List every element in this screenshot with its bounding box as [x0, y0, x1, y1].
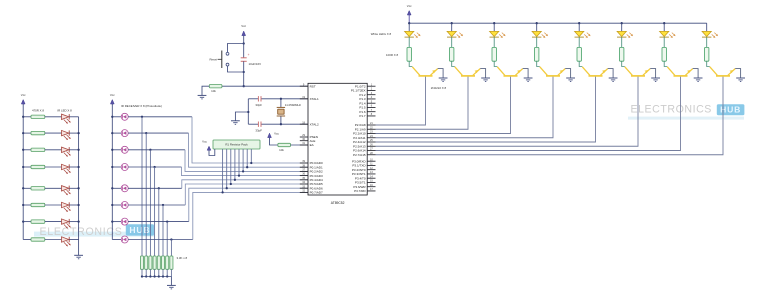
wire rail to photodiode 4: [112, 166, 121, 168]
wire resistor to transistor 4: [537, 61, 540, 66]
wire pulldown drop 2: [145, 133, 147, 256]
resistor 100R #8: [705, 47, 709, 61]
ground (transistor 6): [651, 77, 660, 79]
resistor 10k (EA): [278, 143, 291, 146]
svg-text:R1 Resistor Pack: R1 Resistor Pack: [225, 143, 248, 147]
resistor 470R #8: [31, 238, 45, 241]
node IR row 5 rail junction: [22, 187, 24, 189]
node XTAL1 crystal junction: [280, 98, 282, 100]
watermark HUB badge right: [717, 104, 745, 115]
ground (transistor 2): [481, 77, 490, 79]
wire photodiode 7 output: [128, 221, 189, 223]
wire LED supply rail: [409, 22, 707, 24]
resistor 100R #5: [577, 47, 581, 61]
node photodiode rail junction row 4: [111, 166, 113, 168]
node rail junction LED 4: [536, 22, 538, 24]
node rail junction LED 7: [663, 22, 665, 24]
wire resistor 5 to common: [158, 269, 160, 276]
node XTAL2 crystal junction: [280, 123, 282, 125]
wire LED to right rail row 4: [69, 166, 78, 168]
resistor 3.3K #8: [170, 256, 173, 269]
pin 37 P0.2/AD2 stub: [300, 170, 308, 172]
wire rail to photodiode 5: [112, 187, 121, 189]
node common bar junction 7: [166, 275, 168, 277]
svg-text:White LEDs X 8: White LEDs X 8: [371, 32, 392, 36]
wire pulldown drop 1: [141, 117, 143, 256]
wire LED to right rail row 2: [69, 132, 78, 134]
node junction to pulldown 6: [162, 204, 164, 206]
svg-text:P0.7/AD7: P0.7/AD7: [310, 191, 323, 195]
resistor 10k (reset pulldown): [209, 85, 222, 88]
pin 5 P1.4 stub: [367, 102, 375, 104]
capacitor 10uF/16V: [241, 53, 250, 61]
switch Reset: [218, 51, 229, 69]
ground (transistor 4): [566, 77, 575, 79]
wire emitter 6 to ground: [650, 69, 655, 78]
wire LED to right rail row 3: [69, 149, 78, 151]
wire emitter 2 to ground: [480, 69, 485, 78]
wire base 8 to P2.7: [376, 77, 724, 155]
wire resistor to LED row 4: [45, 166, 62, 168]
wire rail to LED 5: [578, 23, 580, 31]
wire rail to photodiode 6: [112, 204, 121, 206]
wire photodiode 8 output: [128, 239, 193, 241]
photodiode PD3: [121, 146, 128, 153]
pin 4 P1.3 stub: [367, 98, 375, 100]
transistor Q2 2N2222: [455, 67, 480, 76]
transistor Q7 2N2222: [667, 67, 692, 76]
pin 15 P3.5/T1 stub: [367, 181, 375, 183]
node pack pin 4 junction: [230, 183, 232, 185]
white LED L6: [617, 31, 633, 38]
wire LED 2 to resistor: [451, 37, 453, 47]
pin 11 P3.1/TXD stub: [367, 164, 375, 166]
node rail junction LED 6: [621, 22, 623, 24]
wire pack common to Vcc: [209, 149, 215, 156]
pin 25 P2.4/A12 stub: [367, 141, 375, 143]
IR LED D7: [62, 219, 71, 229]
wire pulldown drop 4: [154, 167, 156, 256]
svg-text:470R X 8: 470R X 8: [32, 108, 44, 112]
node right rail junction row 2: [77, 132, 79, 134]
wire photodiode 2 output: [128, 132, 188, 134]
pin 36 P0.3/AD3 stub: [300, 175, 308, 177]
ground (transistor 3): [524, 77, 533, 79]
node IR row 4 rail junction: [22, 166, 24, 168]
resistor 100R #1: [407, 47, 411, 61]
wire Vcc to 10k (EA): [270, 138, 278, 145]
wire pulldown drop 6: [162, 205, 164, 256]
photodiode PD5: [121, 185, 128, 192]
svg-text:Vcc: Vcc: [202, 140, 207, 144]
transistor Q1 2N2222: [412, 67, 437, 76]
wire XTAL2 net: [248, 123, 258, 125]
wire photodiode 4 output: [128, 166, 181, 168]
wire Vcc rail (photodiode array): [111, 104, 113, 240]
wire emitter 7 to ground: [693, 69, 698, 78]
wire photodiode 6 output: [128, 204, 185, 206]
node IR row 6 rail junction: [22, 204, 24, 206]
wire resistor 1 to common: [141, 269, 143, 276]
ground (transistor 1): [439, 77, 448, 79]
ground (crystal): [231, 120, 240, 122]
watermark HUB badge left: [126, 224, 154, 235]
node photodiode rail junction row 5: [111, 187, 113, 189]
wire pack pin 5 to P0.4 bus: [234, 149, 236, 180]
node photodiode rail junction row 1: [111, 116, 113, 118]
node pack pin 9 junction: [250, 162, 252, 164]
wire emitter 3 to ground: [523, 69, 528, 78]
svg-text:IR LED X 8: IR LED X 8: [57, 108, 72, 112]
node pack pin 3 junction: [226, 187, 228, 189]
wire rail to photodiode 7: [112, 221, 121, 223]
node common bar junction 1: [141, 275, 143, 277]
pin 16 P3.6/WR stub: [367, 186, 375, 188]
ground (transistor 8): [736, 77, 745, 79]
pin 39 P0.0/AD0 stub: [300, 162, 308, 164]
white LED L5: [575, 31, 591, 38]
wire LED 7 to resistor: [663, 37, 665, 47]
photodiode PD6: [121, 202, 128, 209]
wire LED 1 to resistor: [408, 37, 410, 47]
wire rail to photodiode 3: [112, 149, 121, 151]
svg-text:P3.7/RD: P3.7/RD: [354, 189, 366, 193]
wire common ground bar (photodiode pulldowns): [142, 276, 171, 278]
wire LED 4 to resistor: [536, 37, 538, 47]
resistor 100R #4: [535, 47, 539, 61]
svg-text:ELECTRONICS: ELECTRONICS: [40, 226, 123, 238]
ground (IR LED array): [74, 254, 83, 256]
resistor 3.3K #4: [153, 256, 156, 269]
wire to ground (crystal): [235, 112, 248, 121]
node photodiode rail junction row 7: [111, 220, 113, 222]
wire emitter 8 to ground: [735, 69, 740, 78]
node junction to pulldown 2: [145, 132, 147, 134]
pin 34 P0.5/AD5 stub: [300, 183, 308, 185]
svg-text:Vcc: Vcc: [241, 24, 246, 28]
wire to resistor R6: [23, 204, 31, 206]
node pack pin 2 junction: [221, 191, 223, 193]
wire to resistor R3: [23, 149, 31, 151]
ground (reset): [198, 94, 207, 96]
resistor 470R #1: [31, 115, 45, 118]
pin 13 P3.3/INT1 stub: [367, 173, 375, 175]
node crystal ground junction: [247, 111, 249, 113]
svg-text:AT89C52: AT89C52: [331, 201, 345, 205]
photodiode PD1: [121, 113, 128, 120]
wire resistor to LED row 1: [45, 116, 62, 118]
resistor 3.3K #3: [149, 256, 152, 269]
pin 32 P0.7/AD7 stub: [300, 191, 308, 193]
wire to resistor R4: [23, 166, 31, 168]
wire rail to photodiode 2: [112, 132, 121, 134]
node IR row 1 rail junction: [22, 116, 24, 118]
resistor 100R #7: [662, 47, 666, 61]
node common bar junction 5: [158, 275, 160, 277]
white LED L1: [405, 31, 421, 38]
wire to resistor R8: [23, 239, 31, 241]
wire capacitor common: [247, 99, 249, 124]
wire resistor to LED row 3: [45, 149, 62, 151]
wire rail to photodiode 1: [112, 116, 121, 118]
wire pack pin 9 to P0.0 bus: [250, 149, 252, 163]
wire LED to right rail row 5: [69, 187, 78, 189]
node photodiode rail junction row 3: [111, 149, 113, 151]
wire pack pin 3 to P0.6 bus: [226, 149, 228, 188]
resistor 470R #7: [31, 220, 45, 223]
svg-text:P2.7/A15: P2.7/A15: [353, 153, 366, 157]
wire to resistor R5: [23, 187, 31, 189]
wire to resistor R1: [23, 116, 31, 118]
node pack pin 7 junction: [242, 170, 244, 172]
node rail junction LED 5: [578, 22, 580, 24]
node common bar junction 4: [153, 275, 155, 277]
photodiode PD2: [121, 130, 128, 137]
node pack pin 6 junction: [238, 174, 240, 176]
pin 27 P2.6/A14 stub: [367, 150, 375, 152]
node common bar junction 2: [145, 275, 147, 277]
wire LED to right rail row 6: [69, 204, 78, 206]
capacitor 33pF top: [257, 96, 259, 101]
svg-text:3.3K x 8: 3.3K x 8: [177, 256, 188, 260]
wire resistor to LED row 8: [45, 239, 62, 241]
wire resistor 4 to common: [154, 269, 156, 276]
resistor 100R #6: [620, 47, 624, 61]
wire resistor to LED row 7: [45, 221, 62, 223]
svg-text:HUB: HUB: [129, 225, 150, 235]
wire to resistor R7: [23, 221, 31, 223]
transistor Q5 2N2222: [582, 67, 607, 76]
pin 17 P3.7/RD stub: [367, 190, 375, 192]
wire pulldown drop 3: [149, 150, 151, 256]
node right rail junction row 6: [77, 204, 79, 206]
svg-text:Vcc: Vcc: [274, 132, 279, 136]
wire Vcc to capacitor: [243, 44, 245, 58]
pin 38 P0.1/AD1 stub: [300, 166, 308, 168]
node right rail junction row 3: [77, 149, 79, 151]
wire photodiode 1 output: [128, 116, 192, 118]
resistor 3.3K #7: [166, 256, 169, 269]
pin 6 P1.5 stub: [367, 106, 375, 108]
wire LED 5 to resistor: [578, 37, 580, 47]
wire resistor 8 to common: [170, 269, 172, 276]
wire pack pin 6 to P0.3 bus: [238, 149, 240, 176]
node right rail junction row 7: [77, 220, 79, 222]
wire pack pin 4 to P0.5 bus: [230, 149, 232, 184]
wire staircase to P0.2: [185, 150, 308, 172]
svg-text:10uF/16V: 10uF/16V: [249, 62, 262, 66]
pin 29 PSEN stub: [300, 136, 308, 138]
wire resistor to transistor 8: [707, 61, 710, 66]
pin 22 P2.1/A9 stub: [367, 128, 375, 130]
pin 14 P3.4/T0 stub: [367, 177, 375, 179]
wire pulldown drop 8: [170, 240, 172, 257]
wire LED 3 to resistor: [493, 37, 495, 47]
node photodiode rail junction row 2: [111, 132, 113, 134]
svg-text:XTAL2: XTAL2: [310, 122, 319, 126]
svg-text:Vcc: Vcc: [21, 93, 26, 97]
svg-text:IR RECEIVER X 8 (Photodiode): IR RECEIVER X 8 (Photodiode): [121, 104, 162, 108]
pin 8 P1.7 stub: [367, 115, 375, 117]
pin 31 EA stub: [300, 144, 308, 146]
svg-text:Vcc: Vcc: [110, 93, 115, 97]
resistor 470R #5: [31, 187, 45, 190]
node pack pin 8 junction: [246, 166, 248, 168]
node junction to pulldown 4: [153, 166, 155, 168]
svg-text:33pF: 33pF: [255, 103, 262, 107]
resistor 470R #6: [31, 203, 45, 206]
white LED L7: [660, 31, 676, 38]
ground (transistor 7): [694, 77, 703, 79]
svg-text:10k: 10k: [279, 148, 284, 152]
op-amp U1 AT89C52 body: [308, 83, 367, 195]
pin 3 P1.2 stub: [367, 94, 375, 96]
photodiode PD4: [121, 164, 128, 171]
svg-text:P1.7: P1.7: [359, 114, 366, 118]
wire resistor 3 to common: [149, 269, 151, 276]
wire emitter 5 to ground: [608, 69, 613, 78]
wire photodiode 3 output: [128, 149, 185, 151]
IR LED D5: [62, 186, 71, 196]
transistor Q3 2N2222: [497, 67, 522, 76]
pin 10 P3.0/RXD stub: [367, 160, 375, 162]
crystal X1 11.0592MHz: [277, 99, 285, 124]
wire base 2 to P2.1: [376, 77, 469, 130]
wire rail to photodiode 8: [112, 239, 121, 241]
IR LED D1: [62, 114, 71, 124]
wire right rail (IR LED array) to ground: [78, 117, 80, 255]
pin 21 P2.0/A8 stub: [367, 124, 375, 126]
svg-text:100R X 8: 100R X 8: [386, 53, 398, 57]
wire rail to LED 6: [621, 23, 623, 31]
pin 12 P3.2/INT0 stub: [367, 169, 375, 171]
photodiode PD8: [121, 236, 128, 243]
wire resistor to transistor 1: [409, 61, 412, 66]
wire resistor to transistor 5: [579, 61, 582, 66]
node IR row 2 rail junction: [22, 132, 24, 134]
IR LED D4: [62, 164, 71, 174]
wire RST to chip: [222, 85, 308, 87]
wire pulldown drop 5: [158, 188, 160, 256]
resistor 3.3K #1: [140, 256, 143, 269]
wire 10k to ground: [202, 86, 209, 95]
wire resistor to LED row 5: [45, 187, 62, 189]
pin 18 XTAL2 stub: [300, 123, 308, 125]
node junction to pulldown 8: [170, 238, 172, 240]
node right rail junction row 5: [77, 187, 79, 189]
node junction to pulldown 5: [158, 187, 160, 189]
wire resistor 2 to common: [145, 269, 147, 276]
IR LED D3: [62, 147, 71, 157]
IR LED D6: [62, 202, 71, 212]
wire reset switch bottom: [228, 66, 244, 72]
wire Vcc rail left (IR LED array): [22, 104, 24, 240]
node photodiode rail junction row 6: [111, 204, 113, 206]
wire to resistor R2: [23, 132, 31, 134]
IR LED D8: [62, 237, 71, 247]
photodiode PD7: [121, 218, 128, 225]
wire resistor 6 to common: [162, 269, 164, 276]
pin 35 P0.4/AD4 stub: [300, 179, 308, 181]
svg-text:Reset: Reset: [209, 57, 217, 61]
wire capacitor to RST node: [243, 61, 245, 86]
wire LED 8 to resistor: [706, 37, 708, 47]
wire rail to LED 7: [663, 23, 665, 31]
node reset top junction: [243, 42, 245, 44]
wire base 7 to P2.6: [376, 77, 681, 151]
svg-text:10k: 10k: [211, 89, 216, 93]
pin 7 P1.6 stub: [367, 111, 375, 113]
pin 1 P1.0/T2 stub: [367, 85, 375, 87]
wire pulldown drop 7: [166, 222, 168, 256]
wire 10k to EA pin: [291, 144, 309, 146]
resistor 3.3K #5: [157, 256, 160, 269]
resistor 100R #3: [492, 47, 496, 61]
capacitor 33pF bottom: [257, 122, 259, 127]
svg-text:XTAL1: XTAL1: [310, 97, 319, 101]
node reset bottom junction: [243, 71, 245, 73]
wire emitter 1 to ground: [438, 69, 443, 78]
wire staircase to P0.6: [189, 188, 308, 221]
node RST junction: [243, 85, 245, 87]
wire to reset switch top: [228, 44, 244, 53]
svg-text:Vcc: Vcc: [407, 4, 412, 8]
wire resistor to LED row 6: [45, 204, 62, 206]
wire base 4 to P2.3: [376, 77, 554, 138]
white LED L2: [447, 31, 463, 38]
wire staircase to P0.7: [193, 192, 308, 239]
svg-text:RST: RST: [310, 84, 316, 88]
wire rail to LED 8: [706, 23, 708, 31]
ground (photodiode pulldowns): [167, 284, 176, 286]
node rail junction LED 3: [493, 22, 495, 24]
resistor 470R #4: [31, 165, 45, 168]
pin 9 RST stub: [300, 85, 308, 87]
resistor 470R #2: [31, 131, 45, 134]
wire photodiode 5 output: [128, 187, 182, 189]
node common bar junction 3: [149, 275, 151, 277]
wire XTAL1 net: [248, 98, 258, 100]
svg-text:ELECTRONICS: ELECTRONICS: [631, 104, 712, 116]
watermark ribbon right: [628, 117, 744, 120]
resistor 470R #3: [31, 148, 45, 151]
wire rail to LED 1: [408, 23, 410, 31]
node junction to pulldown 3: [149, 149, 151, 151]
node right rail junction row 4: [77, 166, 79, 168]
wire rail to LED 3: [493, 23, 495, 31]
wire pack pin 2 to P0.7 bus: [222, 149, 224, 192]
wire resistor to LED row 2: [45, 132, 62, 134]
wire resistor to transistor 7: [664, 61, 667, 66]
wire emitter 4 to ground: [565, 69, 570, 78]
wire LED to right rail row 1: [69, 116, 78, 118]
wire staircase to P0.3: [182, 167, 309, 176]
resistor 3.3K #6: [161, 256, 164, 269]
watermark ribbon left: [34, 232, 154, 237]
wire resistor 7 to common: [166, 269, 168, 276]
node rail junction LED 1: [408, 22, 410, 24]
wire rail to LED 4: [536, 23, 538, 31]
transistor Q6 2N2222: [625, 67, 650, 76]
resistor 100R #2: [450, 47, 454, 61]
pin 24 P2.3/A11 stub: [367, 137, 375, 139]
wire LED 6 to resistor: [621, 37, 623, 47]
wire LED to right rail row 7: [69, 221, 78, 223]
node common bar junction 6: [162, 275, 164, 277]
resistor 3.3K #2: [145, 256, 148, 269]
white LED L3: [490, 31, 506, 38]
wire staircase to P0.4: [182, 180, 308, 189]
